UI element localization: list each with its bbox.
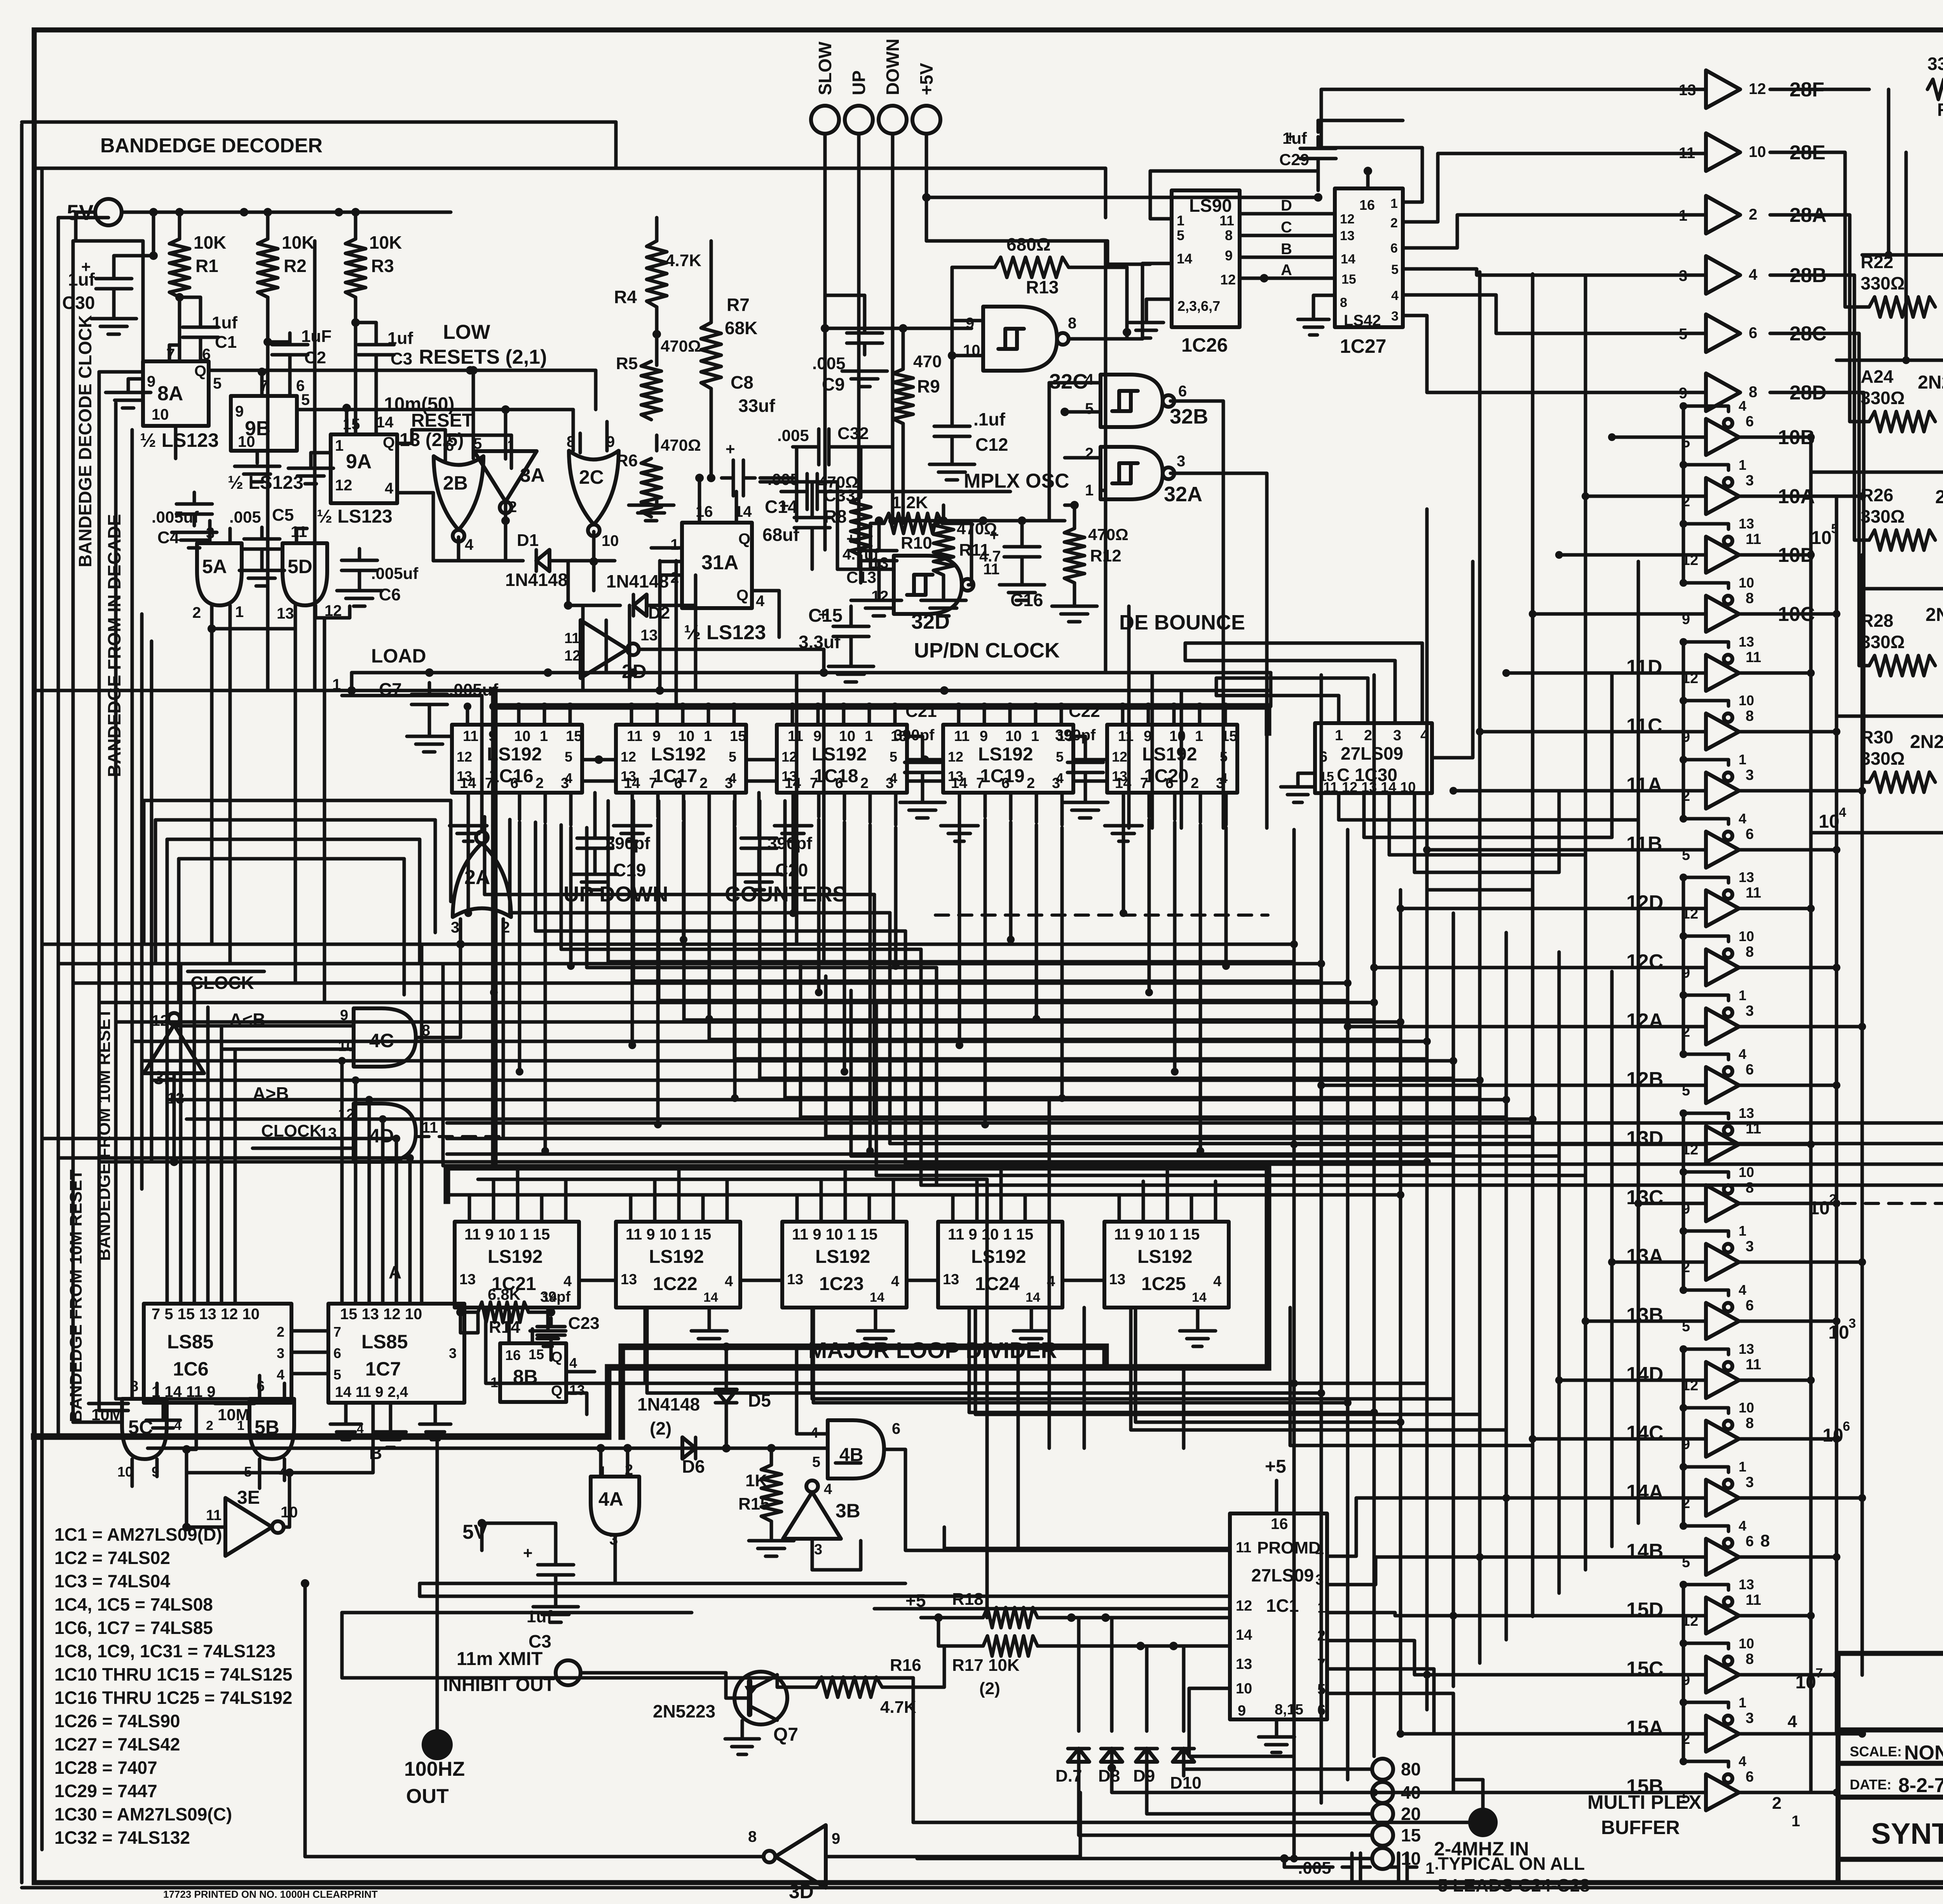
svg-text:4: 4 bbox=[563, 1273, 572, 1290]
svg-text:9: 9 bbox=[1238, 1703, 1246, 1719]
wire 10A output bbox=[1740, 495, 1862, 498]
svg-text:12C: 12C bbox=[1626, 950, 1663, 973]
wire 1C20 bottom pin 2 bbox=[1173, 793, 1177, 819]
wire +5V rail 2 bbox=[925, 197, 928, 241]
wire 11B output bbox=[1740, 848, 1837, 852]
svg-text:5D: 5D bbox=[288, 556, 312, 577]
wire 9A pin15 bbox=[345, 408, 349, 434]
wire 1C19 top pin 3 bbox=[1034, 706, 1038, 725]
wire C29 bbox=[1317, 166, 1320, 180]
resistor R1 bbox=[169, 239, 190, 297]
svg-text:12: 12 bbox=[781, 749, 797, 765]
svg-text:14: 14 bbox=[542, 1290, 557, 1305]
svg-text:2N5223: 2N5223 bbox=[653, 1701, 715, 1721]
svg-text:390pf: 390pf bbox=[767, 834, 812, 853]
wire R12 bbox=[1073, 505, 1076, 528]
wire collector A bbox=[1861, 555, 1864, 1675]
svg-text:4: 4 bbox=[465, 536, 474, 553]
svg-text:12: 12 bbox=[1220, 272, 1236, 288]
wire R16 bbox=[777, 1675, 816, 1687]
svg-text:14: 14 bbox=[1192, 1290, 1207, 1305]
wire 1C16 bottom pin 4 bbox=[569, 793, 573, 825]
ground C22 bbox=[1084, 780, 1087, 800]
wire 1C17 top pin 0 bbox=[630, 706, 633, 725]
svg-text:14: 14 bbox=[870, 1290, 884, 1305]
wire 1C24 top pin 4 bbox=[1048, 1181, 1051, 1222]
svg-text:32B: 32B bbox=[1170, 405, 1208, 428]
svg-text:7: 7 bbox=[333, 1324, 341, 1340]
svg-text:4: 4 bbox=[174, 1418, 181, 1433]
terminal 20 bbox=[1372, 1803, 1393, 1824]
svg-text:4: 4 bbox=[1839, 805, 1846, 820]
wire 1C18 top pin 0 bbox=[791, 706, 794, 725]
wire R14 bbox=[460, 1311, 478, 1314]
ground 1C16 pin14 bbox=[467, 793, 470, 824]
svg-text:3: 3 bbox=[1746, 767, 1754, 783]
wire divider stair 2 bbox=[813, 1308, 1348, 1403]
wire mid band 2 bbox=[73, 982, 1348, 985]
wire 1C24 top pin 2 bbox=[999, 1166, 1003, 1222]
wire 1C6 out2 bbox=[187, 1403, 196, 1449]
svg-text:10K: 10K bbox=[194, 232, 226, 253]
svg-text:16: 16 bbox=[1359, 197, 1375, 213]
paper edge line bbox=[20, 124, 24, 1883]
svg-text:4: 4 bbox=[1739, 1046, 1746, 1062]
wire ctr1 pin2 drop bbox=[682, 822, 685, 940]
svg-text:10: 10 bbox=[1005, 728, 1022, 745]
wire 1C20 top pin 2 bbox=[1172, 706, 1176, 725]
svg-text:15D: 15D bbox=[1626, 1599, 1663, 1621]
svg-text:4: 4 bbox=[385, 480, 394, 497]
ground 1C19 pin14 bbox=[958, 793, 961, 824]
wire ctr0 pin4 drop bbox=[569, 828, 573, 966]
IC 9A half LS123 bbox=[331, 434, 397, 503]
buffer 14B bbox=[1706, 1539, 1739, 1575]
wire 1C22 top pin 2 bbox=[677, 1166, 681, 1222]
resistor R28 330 bbox=[1869, 656, 1935, 676]
wire ctr4 pin3 drop bbox=[1199, 825, 1202, 1151]
wire divider stair 0 bbox=[486, 1308, 1294, 1383]
svg-text:6: 6 bbox=[1001, 775, 1010, 792]
svg-text:12: 12 bbox=[1236, 1598, 1252, 1614]
wire bus vertical 3 bbox=[1373, 675, 1376, 1756]
wire 2A in3 bbox=[459, 919, 462, 944]
wire gates band 3 bbox=[179, 857, 404, 861]
wire +5V rail right bbox=[926, 196, 1318, 199]
svg-text:.005: .005 bbox=[812, 354, 846, 373]
wire div carry 2 bbox=[907, 1279, 938, 1282]
wire R4 bbox=[655, 218, 659, 241]
wire mid band k bbox=[42, 1137, 396, 1140]
svg-text:1: 1 bbox=[1739, 1459, 1746, 1475]
wire promd pin10 bbox=[1189, 1688, 1372, 1769]
wire left bus wrap b bbox=[99, 1409, 128, 1412]
svg-text:11: 11 bbox=[1236, 1540, 1251, 1556]
wire gate drop 0 bbox=[581, 606, 585, 690]
wire ctr4 pin4 drop bbox=[1224, 828, 1228, 966]
svg-text:5: 5 bbox=[1220, 749, 1228, 765]
svg-text:11: 11 bbox=[1746, 885, 1761, 901]
diode D1 bbox=[536, 550, 549, 571]
svg-text:13A: 13A bbox=[1626, 1245, 1663, 1268]
svg-text:3: 3 bbox=[1393, 727, 1401, 744]
capacitor C32 bbox=[807, 445, 819, 449]
wire 1C19 top pin 4 bbox=[1060, 706, 1063, 725]
capacitor C8 bbox=[722, 476, 733, 480]
ground Q7 bbox=[741, 1721, 744, 1737]
svg-text:15: 15 bbox=[1221, 728, 1237, 745]
wire bus to term10 bbox=[1292, 1826, 1296, 1859]
svg-text:11: 11 bbox=[1746, 649, 1761, 666]
svg-text:D6: D6 bbox=[682, 1456, 705, 1477]
svg-text:8: 8 bbox=[1068, 315, 1076, 332]
buffer 11D bbox=[1706, 655, 1739, 691]
wire LS90-LS42 D bbox=[1240, 212, 1335, 216]
svg-text:R10: R10 bbox=[901, 534, 932, 553]
ground 1C23 bbox=[874, 1308, 877, 1329]
wire 8A pin9 gnd bbox=[128, 379, 143, 392]
resistor R19 330 bbox=[1927, 79, 1943, 99]
svg-text:470: 470 bbox=[913, 352, 942, 371]
wire 1C19 bottom pin 4 bbox=[1060, 793, 1064, 825]
wire R18 line bbox=[921, 1616, 983, 1620]
svg-text:TYPICAL ON ALL: TYPICAL ON ALL bbox=[1438, 1853, 1585, 1874]
svg-text:5: 5 bbox=[1679, 326, 1687, 343]
wire left bus wrap a bbox=[73, 1421, 120, 1424]
svg-text:2: 2 bbox=[508, 499, 517, 516]
svg-text:31A: 31A bbox=[701, 551, 738, 574]
wire heavy up corner bbox=[619, 1347, 625, 1437]
wire 10A input bbox=[1585, 495, 1706, 498]
wire mid band 7 bbox=[152, 1079, 1480, 1082]
buffer 10B bbox=[1706, 419, 1739, 455]
wire 1C25 top pin 1 bbox=[1142, 1181, 1145, 1222]
ground C6 bbox=[358, 578, 361, 589]
svg-text:4.7K: 4.7K bbox=[665, 251, 701, 270]
wire 8B out bbox=[566, 1370, 595, 1374]
wire gate drop extra c bbox=[795, 673, 799, 944]
wire bus vertical 0 bbox=[1292, 830, 1296, 1826]
svg-text:680Ω: 680Ω bbox=[1006, 234, 1051, 255]
wire divider stair 1 bbox=[647, 1308, 1321, 1393]
wire D5 bbox=[725, 1347, 728, 1390]
wire 1C17 top pin 4 bbox=[733, 706, 736, 725]
wire 28F to R19 bbox=[1770, 88, 1869, 91]
svg-text:Q: Q bbox=[551, 1349, 563, 1365]
wire dashed 13C bbox=[935, 914, 1268, 917]
wire left join b bbox=[58, 216, 108, 220]
buffer 28C bbox=[1706, 314, 1740, 352]
wire carry 1b bbox=[746, 779, 777, 783]
wire 1C30 bottom pins bbox=[1337, 793, 1341, 820]
IC 1C27 LS42 bbox=[1335, 188, 1403, 327]
svg-text:LS192: LS192 bbox=[488, 1247, 542, 1267]
svg-text:11: 11 bbox=[1679, 145, 1695, 162]
wire 15D input bbox=[1453, 1614, 1706, 1618]
wire low band 0 bbox=[420, 1582, 905, 1585]
wire 1C21 top pin 1 bbox=[492, 1181, 495, 1222]
svg-text:10: 10 bbox=[1739, 1635, 1754, 1651]
resistor R2 bbox=[258, 239, 278, 297]
wire counters-to-bus 2 bbox=[659, 999, 1348, 1003]
wire left bus 7 bbox=[150, 641, 153, 1162]
svg-text:4: 4 bbox=[1391, 288, 1399, 303]
wire mid band 3 bbox=[99, 1001, 1374, 1004]
wire ctr0 pin3 drop bbox=[544, 825, 547, 1151]
wire promd out 4 bbox=[1327, 1669, 1706, 1734]
wire gates band 1 bbox=[155, 818, 435, 822]
wire 1C19 bottom pin 1 bbox=[984, 793, 987, 817]
svg-text:12: 12 bbox=[1749, 80, 1766, 98]
svg-text:33uf: 33uf bbox=[738, 396, 775, 416]
wire 14A input bbox=[1506, 1496, 1706, 1500]
buffer 28F bbox=[1706, 70, 1740, 108]
svg-text:3: 3 bbox=[1746, 1238, 1754, 1255]
svg-text:3F: 3F bbox=[153, 1068, 175, 1088]
svg-text:.005: .005 bbox=[767, 470, 799, 488]
wire LS85-1C7 feed 3 bbox=[381, 1119, 385, 1304]
wire gates band 0 bbox=[144, 799, 451, 802]
svg-text:DE BOUNCE: DE BOUNCE bbox=[1119, 611, 1245, 634]
wire divider out 0 bbox=[645, 1308, 1427, 1383]
svg-text:10: 10 bbox=[1823, 1425, 1843, 1446]
ground 1C30 bbox=[1298, 773, 1315, 785]
svg-text:5: 5 bbox=[1831, 521, 1838, 536]
svg-text:4A: 4A bbox=[598, 1488, 623, 1510]
svg-text:2N2905: 2N2905 bbox=[1926, 605, 1943, 625]
wire 13A input bbox=[1612, 1261, 1706, 1264]
wire 1C19 bottom pin 0 bbox=[958, 793, 961, 814]
svg-text:14C: 14C bbox=[1626, 1422, 1663, 1444]
svg-text:5: 5 bbox=[333, 1367, 341, 1383]
svg-text:11 9 10 1 15: 11 9 10 1 15 bbox=[1114, 1226, 1200, 1243]
wire DOWN down bbox=[891, 134, 895, 521]
wire 5V rail bbox=[122, 211, 451, 214]
capacitor C21 bbox=[921, 751, 924, 762]
svg-text:BANDEDGE FROM 10M RESET: BANDEDGE FROM 10M RESET bbox=[66, 1170, 85, 1422]
svg-text:2: 2 bbox=[535, 775, 544, 792]
wire 1C16 bottom pin 2 bbox=[518, 793, 522, 819]
svg-text:1C32 = 74LS132: 1C32 = 74LS132 bbox=[54, 1827, 190, 1848]
diode D10 bbox=[1173, 1749, 1194, 1762]
wire 1C21 top pin 3 bbox=[540, 1197, 544, 1222]
wire mid band 4 bbox=[116, 1020, 1401, 1024]
wire 1C23 top pin 0 bbox=[795, 1197, 799, 1222]
wire 4D out dashed bbox=[416, 1135, 503, 1138]
wire bus vertical 1 bbox=[1320, 675, 1323, 1803]
capacitor C33 bbox=[795, 490, 807, 493]
wire 15B output bbox=[1740, 1791, 1837, 1794]
svg-text:3: 3 bbox=[1746, 1474, 1754, 1491]
wire 1C20 bottom pin 1 bbox=[1148, 793, 1151, 817]
wire heavy divider right bbox=[1265, 1167, 1271, 1367]
svg-text:2N2905: 2N2905 bbox=[1918, 372, 1943, 393]
IC 1C30 27LS09 bbox=[1315, 723, 1432, 793]
wire debounce line bbox=[903, 519, 1065, 523]
wire 28E to base bbox=[1770, 152, 1869, 307]
diode D.7 bbox=[1068, 1749, 1089, 1762]
gate 4D AND bbox=[354, 1104, 416, 1162]
svg-text:100HZ: 100HZ bbox=[404, 1758, 465, 1780]
ground 1C25 bbox=[1196, 1308, 1200, 1329]
svg-text:RESET: RESET bbox=[411, 410, 473, 431]
capacitor C13 bbox=[877, 539, 881, 551]
svg-text:10K: 10K bbox=[282, 232, 314, 253]
svg-text:3: 3 bbox=[1746, 1003, 1754, 1019]
svg-text:Q: Q bbox=[194, 363, 206, 380]
svg-text:+5V: +5V bbox=[916, 63, 937, 95]
wire counters-to-bus 5 bbox=[734, 1057, 1427, 1061]
svg-text:NONE: NONE bbox=[1904, 1742, 1943, 1764]
title hline1 bbox=[1838, 1728, 1943, 1733]
svg-text:Q: Q bbox=[738, 530, 750, 547]
ground C21 bbox=[921, 780, 924, 800]
svg-text:C8: C8 bbox=[731, 372, 753, 392]
IC 1C22 LS192 bbox=[616, 1222, 740, 1308]
wire counters-to-bus extra 3 bbox=[876, 1174, 1585, 1177]
wire term 10 bbox=[917, 1857, 1372, 1860]
wire 15D output bbox=[1740, 1614, 1811, 1618]
svg-text:11: 11 bbox=[627, 728, 642, 745]
svg-text:8: 8 bbox=[1746, 1415, 1754, 1431]
wire promd pin12 bbox=[874, 1607, 1230, 1611]
svg-text:11 9 10 1 15: 11 9 10 1 15 bbox=[792, 1226, 877, 1243]
wire R6 down bbox=[655, 497, 659, 505]
BANDEDGE DECODER box top line bbox=[22, 120, 616, 124]
wire 1C18 top pin 4 bbox=[893, 706, 897, 725]
wire C12 gnd bbox=[951, 444, 954, 462]
svg-text:6: 6 bbox=[510, 775, 518, 792]
svg-text:12: 12 bbox=[871, 588, 889, 605]
wire promd stair b bbox=[1083, 1308, 1086, 1448]
wire divider out 3 bbox=[1131, 1308, 1506, 1557]
wire 4B in bbox=[797, 1432, 828, 1436]
svg-text:16: 16 bbox=[1271, 1515, 1288, 1533]
svg-text:11B: 11B bbox=[1626, 833, 1662, 855]
svg-text:7: 7 bbox=[1317, 1656, 1326, 1672]
svg-text:40: 40 bbox=[1401, 1782, 1421, 1803]
svg-text:13B: 13B bbox=[1626, 1304, 1663, 1327]
wire 28D to base bbox=[1770, 392, 1869, 782]
wire 1C30 top link bbox=[1216, 694, 1339, 697]
wire 1C16 top pin 2 bbox=[517, 706, 521, 725]
wire C2 down bbox=[288, 363, 292, 389]
wire 1C24 top pin 1 bbox=[975, 1181, 979, 1222]
wire 1C19 bottom pin 3 bbox=[1035, 793, 1038, 822]
svg-text:8: 8 bbox=[1746, 944, 1754, 960]
svg-text:14: 14 bbox=[460, 775, 476, 792]
svg-text:8: 8 bbox=[1340, 295, 1347, 310]
wire band vert e bbox=[420, 944, 424, 1304]
wire R10 bbox=[870, 523, 884, 567]
wire 11C input bbox=[1480, 730, 1706, 734]
wire digit row 10^3 bbox=[1837, 715, 1943, 718]
wire 1C19 top pin 0 bbox=[957, 706, 961, 725]
wire 1C23 top pin 2 bbox=[844, 1166, 847, 1222]
wire 3F stem bbox=[173, 1073, 176, 1162]
svg-text:1.2K: 1.2K bbox=[892, 493, 928, 512]
wire counter out band 0 bbox=[485, 893, 874, 896]
wire enable loop group 2 bbox=[1682, 877, 1685, 1054]
svg-text:10: 10 bbox=[1739, 928, 1754, 944]
resistor R8 bbox=[851, 497, 871, 556]
buffer 15B bbox=[1706, 1774, 1739, 1810]
svg-text:LS192: LS192 bbox=[971, 1247, 1026, 1267]
capacitor C1 bbox=[199, 316, 202, 327]
resistor R13 bbox=[995, 257, 1069, 277]
svg-text:9: 9 bbox=[147, 373, 155, 390]
gate 3E inverter bbox=[225, 1498, 272, 1556]
svg-text:15: 15 bbox=[566, 728, 582, 745]
svg-text:5: 5 bbox=[565, 749, 572, 765]
terminal DOWN bbox=[879, 106, 907, 134]
svg-text:10M: 10M bbox=[218, 1405, 249, 1424]
svg-text:330Ω: 330Ω bbox=[1861, 748, 1905, 769]
wire LS85-1C7 feed 1 bbox=[354, 1080, 358, 1304]
wire mid band m bbox=[152, 1160, 1427, 1164]
wire gate drop extra d bbox=[822, 690, 826, 960]
wire 8A pin7 bbox=[168, 345, 171, 361]
wire R13 bbox=[952, 266, 995, 269]
wire gates band 2 bbox=[167, 838, 420, 841]
svg-text:6: 6 bbox=[1746, 1769, 1754, 1785]
wire center vert 2 bbox=[1048, 1098, 1051, 1448]
svg-text:1N4148: 1N4148 bbox=[637, 1394, 700, 1414]
wire 12C input bbox=[1374, 966, 1706, 969]
svg-text:.005uf: .005uf bbox=[152, 508, 199, 526]
svg-text:1: 1 bbox=[1739, 457, 1746, 473]
wire 12A output bbox=[1740, 1025, 1862, 1029]
wire divider out 1 bbox=[812, 1308, 1453, 1439]
svg-text:1C8, 1C9, 1C31 = 74LS123: 1C8, 1C9, 1C31 = 74LS123 bbox=[54, 1641, 276, 1661]
wire LS85-1C7 feed 4 bbox=[395, 1139, 398, 1304]
svg-text:13D: 13D bbox=[1626, 1127, 1663, 1150]
wire 1C27 out2 bbox=[1403, 153, 1706, 222]
inner box line bbox=[34, 167, 1106, 170]
wire 32A out bbox=[1170, 473, 1267, 828]
wire 12B input bbox=[1321, 1084, 1706, 1087]
svg-text:DOWN: DOWN bbox=[883, 38, 903, 95]
wire up path bbox=[857, 561, 861, 569]
wire heavy divider top bbox=[447, 1164, 1268, 1171]
wire 1C16 bottom pin 1 bbox=[492, 793, 496, 817]
wire 10C output bbox=[1740, 612, 1837, 616]
svg-text:1C25: 1C25 bbox=[1141, 1274, 1186, 1294]
wire 1C20 top pin 4 bbox=[1224, 706, 1227, 725]
svg-text:10: 10 bbox=[514, 728, 530, 745]
svg-text:4: 4 bbox=[1788, 1712, 1797, 1731]
wire digit row 10^6 bbox=[1837, 359, 1943, 362]
resistor R5 bbox=[641, 361, 661, 420]
wire mid band 1 bbox=[58, 962, 1321, 966]
wire center vert 0 bbox=[985, 1179, 989, 1618]
svg-text:1C10 THRU 1C15 = 74LS125: 1C10 THRU 1C15 = 74LS125 bbox=[54, 1664, 292, 1684]
svg-text:D9: D9 bbox=[1133, 1766, 1155, 1785]
wire +5V down bbox=[925, 134, 928, 197]
wire 31A q4 bbox=[752, 591, 779, 637]
gate 32D nand bbox=[894, 556, 962, 614]
svg-text:1uf: 1uf bbox=[1282, 129, 1307, 147]
wire left bus 1 bbox=[57, 218, 60, 1437]
wire 1C20 top pin 1 bbox=[1147, 706, 1150, 725]
wire 32B out bbox=[1170, 401, 1223, 828]
wire LS85-1C6 feed 1 bbox=[179, 965, 183, 1304]
svg-text:2: 2 bbox=[699, 775, 708, 792]
svg-text:11: 11 bbox=[564, 630, 580, 647]
wire 15C output bbox=[1740, 1673, 1837, 1677]
wire mid band 9 bbox=[187, 1118, 1533, 1121]
svg-text:MULTI PLEX: MULTI PLEX bbox=[1587, 1791, 1702, 1813]
